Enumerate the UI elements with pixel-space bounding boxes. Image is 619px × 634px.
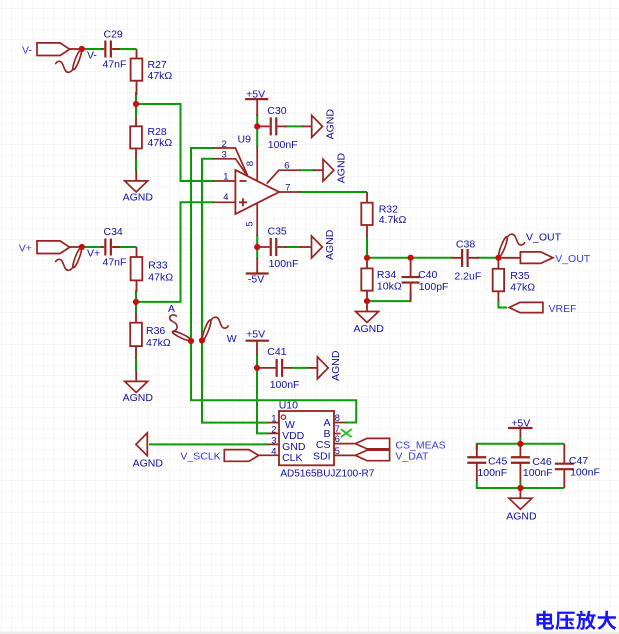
U10 pin 2 [268, 424, 279, 435]
junction node R33 R36 [133, 299, 139, 305]
digital potentiometer U10 [279, 399, 375, 479]
svg-text:-5V: -5V [248, 273, 264, 285]
svg-text:47kΩ: 47kΩ [148, 70, 173, 82]
probe directive V_OUT [497, 234, 525, 257]
svg-text:5: 5 [335, 446, 340, 457]
svg-text:C47: C47 [569, 455, 588, 467]
wire junction to U9 pin 4 [136, 202, 214, 302]
wire +5V net to U10 VDD pin 2 [257, 368, 269, 434]
svg-text:6: 6 [284, 160, 289, 171]
port VREF [509, 302, 576, 314]
capacitor C29 [101, 29, 126, 71]
wire AGND to U10 GND pin 3 [149, 443, 269, 445]
wire C41 to AGND [291, 367, 309, 369]
svg-text:R36: R36 [146, 325, 165, 337]
wire C34 to R33 [113, 246, 137, 248]
wire V+ net [82, 246, 103, 248]
wire U9 pin 5 to -5V [256, 235, 258, 259]
svg-text:6: 6 [335, 434, 340, 445]
svg-text:CS_MEAS: CS_MEAS [395, 439, 445, 451]
svg-text:V-: V- [87, 50, 97, 62]
svg-text:100pF: 100pF [419, 281, 449, 293]
svg-text:2.2uF: 2.2uF [454, 271, 481, 283]
resistor R28 [130, 117, 172, 159]
U10 pin 4 [259, 446, 279, 457]
resistor R35 [493, 258, 536, 301]
svg-text:8: 8 [335, 413, 340, 424]
svg-text:47kΩ: 47kΩ [148, 137, 173, 149]
svg-text:V_DAT: V_DAT [395, 451, 429, 463]
resistor R27 [131, 49, 173, 95]
svg-text:V_OUT: V_OUT [555, 253, 591, 265]
ground AGND below R28 [123, 171, 154, 204]
svg-text:C41: C41 [267, 346, 286, 358]
U10 pin 7 [334, 424, 341, 435]
wire V- net [82, 48, 103, 50]
svg-text:+5V: +5V [246, 88, 265, 100]
capacitor C38 [452, 238, 482, 282]
wire junction to U9 pin 1 [136, 104, 214, 181]
U9 pin 4 [213, 192, 235, 203]
svg-text:100nF: 100nF [268, 139, 298, 151]
svg-text:AGND: AGND [506, 510, 537, 522]
resistor R33 [131, 247, 174, 292]
junction node V- [79, 46, 85, 52]
capacitor C47 [555, 444, 600, 488]
junction node R34 C40 bottom [364, 298, 370, 304]
svg-text:5: 5 [245, 221, 256, 226]
power AGND arrow right of C35 [300, 229, 336, 260]
capacitor C41 [259, 346, 299, 391]
junction node W probe [199, 337, 205, 343]
junction node R32 R34 [364, 255, 370, 261]
svg-text:100nF: 100nF [269, 258, 299, 270]
power AGND arrow right of C30 [302, 109, 336, 140]
wire cap bank top rail [477, 444, 565, 450]
wire R32 to output junction [366, 236, 368, 258]
svg-text:4: 4 [271, 446, 276, 457]
svg-text:100nF: 100nF [570, 467, 600, 479]
wire C30 to AGND [285, 125, 304, 127]
svg-text:2: 2 [222, 139, 227, 150]
U9 pin 6 [267, 160, 300, 183]
wire R28 to AGND [135, 157, 137, 171]
power +5V above C41 [246, 328, 269, 355]
wire +5V to cap bank rail [519, 436, 521, 444]
wire cap bank bottom rail [477, 480, 565, 488]
svg-text:4.7kΩ: 4.7kΩ [379, 214, 407, 226]
svg-text:AGND: AGND [133, 457, 164, 469]
U10 pin 3 [268, 435, 279, 446]
svg-text:7: 7 [285, 182, 290, 193]
power AGND arrow right of C41 [307, 350, 342, 381]
U9 pin 3 [213, 150, 246, 174]
svg-text:C30: C30 [267, 105, 286, 117]
power -5V below C35 [246, 258, 269, 285]
svg-text:1: 1 [223, 172, 228, 183]
svg-text:AGND: AGND [123, 392, 154, 404]
ground AGND below R36 [123, 371, 154, 405]
svg-text:1: 1 [271, 414, 276, 425]
resistor R32 [361, 192, 406, 237]
wire U9 pin 6 to AGND [299, 169, 315, 171]
power +5V above C30 [245, 88, 268, 116]
svg-text:V-: V- [22, 45, 32, 57]
svg-text:100nF: 100nF [477, 467, 507, 479]
capacitor C34 [101, 226, 126, 268]
svg-text:3: 3 [271, 435, 276, 446]
junction node C40 top [408, 255, 414, 261]
op-amp U9 [235, 134, 279, 214]
probe directive W [201, 317, 229, 340]
power AGND arrow left of U10 [133, 433, 164, 470]
wire R34 C40 bottom rail [367, 293, 411, 301]
power AGND arrow at U9 pin 6 [313, 152, 348, 183]
junction node A probe [188, 338, 194, 344]
svg-text:C40: C40 [418, 269, 437, 281]
wire net W : U9 pin 3 to U10 pin 1 [202, 159, 269, 423]
svg-text:V_OUT: V_OUT [526, 232, 562, 244]
port V_DAT [355, 450, 429, 462]
U9 pin 5 [245, 203, 258, 236]
svg-text:C38: C38 [456, 238, 475, 250]
wire C38 to V_OUT junction [478, 257, 503, 259]
wire C29 to R27 [113, 48, 137, 50]
U10 pin 1 [268, 414, 279, 425]
wire C35 to AGND [285, 246, 302, 248]
svg-text:W: W [285, 419, 295, 431]
svg-text:R33: R33 [148, 259, 167, 271]
wire output junction to C38 [367, 257, 453, 259]
svg-text:A: A [168, 303, 175, 315]
svg-text:C46: C46 [532, 456, 551, 468]
junction node cap bank bottom [517, 485, 523, 491]
junction node +5V C41 [254, 365, 260, 371]
svg-text:100nF: 100nF [270, 379, 300, 391]
capacitor C46 [511, 444, 553, 481]
svg-text:AGND: AGND [324, 109, 336, 140]
capacitor C30 [259, 105, 298, 151]
svg-text:+5V: +5V [246, 328, 265, 340]
port V+ [19, 241, 82, 255]
svg-text:10kΩ: 10kΩ [377, 280, 402, 292]
power +5V above cap bank [508, 418, 533, 437]
svg-text:VREF: VREF [549, 303, 577, 315]
resistor R34 [361, 258, 402, 301]
svg-text:R34: R34 [377, 269, 396, 281]
wire R27 to R28 junction [135, 92, 137, 118]
svg-text:AGND: AGND [324, 229, 336, 260]
svg-text:47kΩ: 47kΩ [146, 337, 171, 349]
title text [537, 611, 617, 630]
svg-text:V+: V+ [87, 248, 100, 260]
svg-text:8: 8 [245, 161, 256, 166]
svg-text:47kΩ: 47kΩ [510, 281, 535, 293]
svg-text:C45: C45 [488, 456, 507, 468]
svg-text:AGND: AGND [123, 192, 154, 204]
U9 pin 2 [213, 139, 248, 175]
port V_SCLK [180, 450, 258, 463]
probe directive on V- net [55, 49, 83, 72]
junction node R27 R28 [133, 101, 139, 107]
U9 pin 7 [279, 182, 300, 193]
capacitor C45 [467, 444, 507, 481]
junction node cap bank top [517, 441, 523, 447]
svg-text:V_SCLK: V_SCLK [180, 451, 220, 463]
svg-text:47nF: 47nF [103, 256, 127, 268]
U9 pin 1 [213, 172, 235, 183]
svg-text:C29: C29 [104, 29, 123, 41]
svg-text:SDI: SDI [313, 450, 331, 462]
svg-text:AGND: AGND [330, 350, 342, 381]
svg-text:2: 2 [271, 424, 276, 435]
junction node V+ [79, 244, 85, 250]
svg-text:100nF: 100nF [523, 467, 553, 479]
svg-text:3: 3 [222, 150, 227, 161]
capacitor C40 [402, 258, 449, 301]
port V_OUT [502, 252, 591, 265]
svg-text:+5V: +5V [511, 418, 530, 430]
svg-text:U10: U10 [279, 399, 298, 411]
U10 pin 6 [334, 434, 355, 445]
svg-text:C34: C34 [104, 226, 123, 238]
U10 pin 5 [334, 446, 355, 457]
svg-text:AGND: AGND [354, 323, 385, 335]
svg-text:AGND: AGND [336, 152, 348, 183]
junction node +5V C30 [254, 123, 260, 129]
resistor R36 [130, 313, 171, 358]
port V- [22, 43, 82, 57]
wire R33 to R36 junction [135, 290, 137, 314]
wire +5V to U9 pin 8 [256, 114, 258, 147]
no connect cross on U10 pin 7 [341, 429, 352, 437]
probe directive A [170, 315, 192, 342]
junction node C35 pin5 [254, 244, 260, 250]
svg-text:C35: C35 [268, 225, 287, 237]
wire U9 pin 7 to R32 [299, 191, 367, 193]
svg-text:47kΩ: 47kΩ [148, 271, 173, 283]
port CS_MEAS [355, 438, 445, 451]
svg-text:W: W [227, 333, 237, 345]
wire R35 to VREF [498, 300, 507, 308]
U10 pin 8 [334, 413, 345, 424]
capacitor C35 [259, 225, 298, 270]
U9 pin 8 [245, 146, 257, 181]
wire R36 to AGND [135, 357, 137, 371]
junction node V_OUT [495, 255, 501, 261]
ground AGND below cap bank [506, 488, 537, 522]
svg-text:AD5165BUJZ100-R7: AD5165BUJZ100-R7 [280, 469, 374, 480]
svg-text:CLK: CLK [282, 452, 302, 464]
svg-text:R35: R35 [510, 270, 529, 282]
probe directive on V+ net [55, 247, 83, 270]
svg-text:CS: CS [316, 439, 331, 451]
svg-text:4: 4 [223, 192, 228, 203]
svg-text:47nF: 47nF [103, 58, 127, 70]
wire net A : U9 pin 2 to U10 pin 8 [191, 148, 356, 423]
svg-text:V+: V+ [19, 243, 32, 255]
ground AGND below R34 [354, 301, 385, 335]
wire +5V to C41 junction [256, 354, 258, 368]
svg-text:U9: U9 [238, 134, 252, 146]
